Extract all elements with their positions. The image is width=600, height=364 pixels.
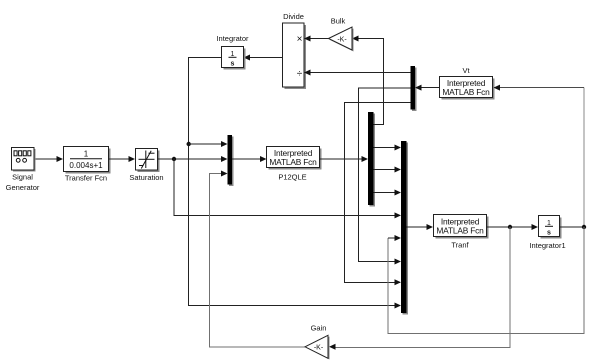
wire: Tranf output to Integrator1 (487, 224, 539, 230)
svg-text:Generator: Generator (6, 183, 40, 192)
svg-text:Signal: Signal (12, 173, 33, 182)
wire: Bulk output to Divide x input (304, 36, 329, 42)
wire: Integrator1 output to right branch point (560, 226, 585, 228)
junction dot at integrator branch (187, 142, 191, 146)
wire: Integrator1 output up to Vt input (494, 85, 585, 227)
junction dot on saturation line (172, 157, 176, 161)
integrator block (216, 34, 249, 70)
signal generator SG (6, 148, 40, 193)
svg-text:Integrator1: Integrator1 (529, 241, 565, 250)
svg-text:P12QLE: P12QLE (278, 173, 306, 182)
gain triangle (305, 324, 330, 360)
svg-text:×: × (297, 34, 303, 45)
junction dot at Integrator1 output (582, 225, 586, 229)
wire: Gain output up to Mux1 input 3 (210, 171, 306, 347)
divide block (283, 12, 307, 89)
wire: Divide output to Integrator input (244, 55, 283, 61)
svg-text:Tranf: Tranf (451, 241, 469, 250)
svg-text:MATLAB Fcn: MATLAB Fcn (442, 87, 490, 97)
demux4 bar (411, 66, 417, 111)
svg-text:-K-: -K- (314, 345, 324, 352)
svg-text:Transfer Fcn: Transfer Fcn (65, 174, 107, 183)
svg-text:Integrator: Integrator (216, 34, 249, 43)
transfer fcn block (64, 147, 111, 183)
saturation block (129, 149, 163, 183)
wire: Mux1 output to P12QLE (232, 156, 267, 162)
wire: branch down from saturation line to Mux3 input 4 (174, 159, 401, 218)
wire: Demux4 out1 to Divide divide-input (304, 70, 411, 76)
wire: P12QLE output to Demux2 (320, 156, 369, 162)
svg-text:s: s (547, 230, 551, 237)
wire: Demux2 out3 to Mux3 in2 (374, 167, 402, 173)
junction dot at Tranf output (508, 225, 512, 229)
svg-text:MATLAB Fcn: MATLAB Fcn (436, 226, 484, 236)
svg-text:MATLAB Fcn: MATLAB Fcn (269, 157, 317, 167)
wire: Demux2 out2 to Mux3 in1 (374, 145, 402, 151)
wire: Integrator1 output down loop to Mux3 in5 (388, 227, 584, 334)
wire: Saturation to Mux1 input 2 (158, 156, 228, 162)
svg-text:Vt: Vt (462, 66, 470, 75)
svg-text:1: 1 (84, 149, 89, 158)
P12QLE interpreted MATLAB fcn block (267, 147, 322, 182)
svg-text:Divide: Divide (283, 12, 304, 21)
svg-text:Saturation: Saturation (129, 173, 163, 182)
svg-text:Gain: Gain (311, 324, 327, 333)
wire: Demux4 out3 down to Mux3 in7 (345, 103, 411, 286)
wire: Demux2 out1 up to Bulk input (352, 36, 384, 125)
mux1 bar (228, 135, 234, 186)
wire: Demux4 out2 down to Mux3 in6 (358, 88, 410, 265)
svg-text:Bulk: Bulk (331, 17, 346, 26)
mux3 bar (401, 141, 408, 315)
integrator1 block (529, 216, 565, 251)
wire: Demux2 out4 to Mux3 in3 (374, 190, 402, 196)
wire: branch to Mux1 input 1 (189, 141, 228, 147)
wire: Integrator output down, branches to Mux1 in1 and Mux3 in8 (189, 58, 401, 309)
wire: Transfer Fcn to Saturation (109, 156, 136, 162)
svg-text:-K-: -K- (337, 36, 347, 43)
svg-text:s: s (231, 61, 235, 68)
demux2 bar (368, 112, 375, 207)
wire: Vt output to Demux4 (415, 85, 440, 91)
wire: Signal Generator to Transfer Fcn (34, 156, 64, 162)
Vt interpreted MATLAB fcn block (440, 66, 495, 100)
Tranf interpreted MATLAB fcn block (434, 215, 489, 250)
bulk gain triangle (329, 17, 354, 52)
wire: Mux3 output to Tranf (407, 224, 434, 230)
wire: Tranf output down loop to Gain input (329, 227, 510, 350)
svg-text:÷: ÷ (297, 68, 303, 79)
svg-text:0.004s+1: 0.004s+1 (69, 161, 103, 170)
